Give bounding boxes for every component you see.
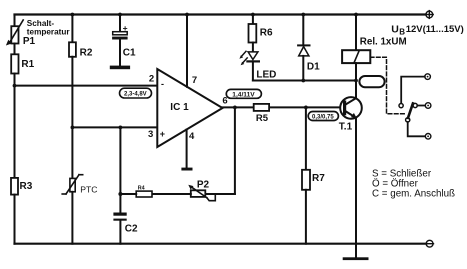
wire feedback horizontal (P2/R4 net): [205, 193, 235, 195]
label R1: [21, 59, 34, 70]
svg-text:B: B: [399, 28, 405, 37]
svg-text:Rel. 1xUM: Rel. 1xUM: [360, 37, 407, 48]
wire feedback vertical: [234, 107, 236, 194]
node D1 rail junction: [301, 13, 305, 17]
label pin 6: [222, 95, 227, 106]
resistor R6: [249, 24, 257, 43]
node label oval 1,4/11V: [226, 89, 261, 98]
node label oval 2,3-4,8V: [120, 88, 152, 98]
resistor R3: [11, 178, 18, 195]
wire R3 to bottom rail: [14, 195, 16, 244]
resistor R6 top lead: [252, 15, 254, 25]
svg-text:R5: R5: [256, 113, 269, 124]
node R6 rail junction: [251, 13, 255, 17]
wire LED/D1 bottom net: [253, 80, 356, 82]
svg-text:P2: P2: [197, 180, 210, 191]
node collector junction: [354, 79, 358, 83]
svg-text:2: 2: [149, 74, 154, 85]
wire PTC top lead: [71, 127, 73, 178]
svg-text:2,3-4,8V: 2,3-4,8V: [124, 91, 147, 97]
wire pivot to bottom terminal: [408, 122, 425, 136]
label minus input: [161, 79, 164, 89]
svg-text:U: U: [391, 23, 399, 35]
relay coil Rel 1xUM: [342, 15, 370, 64]
label oval text 0,3/0,75: [312, 114, 334, 120]
label oval text 1,4/11V: [232, 91, 255, 98]
svg-text:-: -: [161, 79, 164, 89]
svg-text:IC 1: IC 1: [170, 102, 189, 113]
wire R6 to LED: [252, 43, 254, 52]
label LED: [256, 70, 276, 81]
wire relay contact dashed link: [370, 57, 405, 114]
wire PTC to bottom rail: [71, 192, 73, 244]
op-amp U1 IC1 triangle: [157, 69, 222, 147]
svg-text:0,3/0,75: 0,3/0,75: [312, 114, 334, 120]
wire R7 to bottom rail: [305, 190, 307, 244]
label C2: [125, 224, 138, 235]
label R7: [312, 173, 325, 184]
wire relay to collector: [355, 63, 357, 98]
node R7 base junction: [304, 106, 308, 110]
node C1 top rail junction: [118, 13, 122, 17]
node feedback junction: [233, 106, 237, 110]
node junction R2/PTC pin3: [71, 126, 75, 130]
node R2 top rail junction: [71, 13, 75, 17]
ground (pin 4): [181, 168, 192, 171]
wire R2 to pin3 net (crosses pin2 wire): [71, 57, 73, 128]
node pin7 rail junction: [185, 13, 189, 17]
svg-text:R4: R4: [138, 186, 145, 192]
resistor R7: [302, 170, 310, 190]
switch lever: [408, 103, 413, 118]
label legend O: [372, 179, 419, 190]
wire node to R3: [14, 86, 16, 178]
svg-text:+: +: [123, 23, 128, 33]
switch pivot circle: [406, 118, 410, 122]
svg-text:7: 7: [192, 75, 197, 86]
label R4: [138, 186, 145, 192]
label R2: [80, 48, 93, 59]
svg-text:T.1: T.1: [339, 122, 353, 133]
svg-text:R7: R7: [312, 173, 325, 184]
label Rel. 1xUM: [360, 37, 407, 48]
terminal + (UB plus): [425, 11, 433, 19]
label plus C1: [123, 23, 128, 33]
transistor Q1 T.1: [340, 97, 362, 119]
svg-text:R1: R1: [21, 59, 34, 70]
node R4/C2 junction: [118, 192, 122, 196]
label P2: [197, 180, 210, 191]
svg-text:R2: R2: [80, 48, 93, 59]
wire non-inverting input (pin 3 net): [72, 126, 157, 128]
wire P2 left to R4: [152, 193, 191, 195]
svg-text:4: 4: [189, 131, 195, 142]
svg-text:12V(11...15V): 12V(11...15V): [406, 24, 464, 35]
wire pin3 net down to node: [119, 127, 121, 194]
resistor R2: [69, 42, 76, 57]
label pin 4: [189, 131, 195, 142]
node pin3 wire junction: [119, 126, 123, 130]
node label oval (collector, empty): [359, 76, 384, 87]
svg-text:3: 3: [148, 129, 153, 140]
capacitor C1 top lead: [119, 15, 121, 32]
label IC 1: [170, 102, 189, 113]
wire P1 to R1: [14, 44, 16, 55]
capacitor C2: [113, 194, 126, 244]
thermistor PTC: [62, 175, 82, 194]
label pin 7: [192, 75, 197, 86]
label UB supply: [391, 23, 464, 36]
resistor R1: [11, 54, 18, 73]
wire contact to middle terminal: [417, 105, 425, 107]
svg-text:LED: LED: [256, 70, 276, 81]
wire emitter to bottom rail: [355, 118, 357, 258]
svg-text:D1: D1: [307, 62, 320, 73]
svg-text:R3: R3: [20, 181, 33, 192]
label T.1: [339, 122, 353, 133]
wire inverting input (pin 2 net): [15, 85, 158, 87]
wire switch common top: [401, 77, 425, 104]
potentiometer P1: [6, 20, 23, 46]
label legend S: [372, 169, 432, 180]
wire op-amp output pin 6 to base: [222, 106, 341, 108]
label R5: [256, 113, 269, 124]
node relay rail junction: [354, 13, 358, 17]
resistor R5: [254, 104, 269, 111]
node label oval 0,3/0,75: [308, 112, 338, 121]
svg-text:+: +: [160, 129, 165, 139]
ground (emitter): [343, 257, 369, 260]
node junction left (pin2 divider): [13, 84, 17, 88]
label pin 2: [149, 74, 154, 85]
wire R4 to node: [120, 193, 136, 195]
trimmer P2: [188, 185, 215, 201]
svg-text:C1: C1: [123, 48, 136, 59]
svg-text:P1: P1: [23, 36, 36, 47]
capacitor C1: [112, 32, 128, 66]
svg-text:6: 6: [222, 95, 227, 106]
svg-text:C2: C2: [125, 224, 138, 235]
resistor R4: [136, 191, 152, 197]
svg-text:C = gem. Anschluß: C = gem. Anschluß: [372, 188, 455, 199]
switch contact circle left: [399, 104, 403, 108]
wire bottom rail: [15, 243, 427, 245]
label plus input: [160, 129, 165, 139]
svg-text:PTC: PTC: [80, 185, 97, 195]
wire R7 top lead: [305, 107, 307, 169]
node D1 bottom junction: [301, 79, 305, 83]
label C1: [123, 48, 136, 59]
wire left column top (P1 branch): [14, 15, 16, 27]
svg-text:Schalt-: Schalt-: [27, 19, 55, 28]
label legend C: [372, 188, 455, 199]
svg-text:R6: R6: [260, 27, 273, 38]
label R3: [20, 181, 33, 192]
label pin 3: [148, 129, 153, 140]
diode D1: [298, 15, 309, 81]
switch contact circle right: [413, 103, 417, 107]
label D1: [307, 62, 320, 73]
diode LED: [239, 51, 259, 80]
label PTC: [80, 185, 97, 195]
label Schalt-temperatur: [27, 19, 71, 37]
wire pin 7 supply: [186, 15, 188, 87]
terminal - (UB minus): [426, 240, 434, 247]
wire pin 4 to ground: [186, 130, 188, 169]
terminal S (top contact): [425, 74, 431, 80]
svg-text:1,4/11V: 1,4/11V: [232, 91, 255, 98]
label oval text 2,3-4,8V: [124, 91, 147, 97]
wire top supply rail: [15, 13, 426, 15]
ground (C1): [110, 66, 130, 70]
terminal middle: [425, 103, 431, 109]
wire R2 top lead: [71, 15, 73, 43]
wire R1 to node: [14, 74, 16, 86]
terminal bottom C: [425, 134, 431, 140]
label R6: [260, 27, 273, 38]
label P1: [23, 36, 36, 47]
